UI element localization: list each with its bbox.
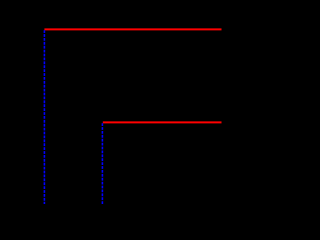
wire: red step segment 2 (lower horizontal line) (103, 121, 222, 123)
wire: blue dashed drop line 1 (43, 30, 45, 204)
wire: blue dashed drop line 2 (101, 123, 103, 204)
wire: red step segment 1 (upper horizontal line) (44, 28, 221, 30)
